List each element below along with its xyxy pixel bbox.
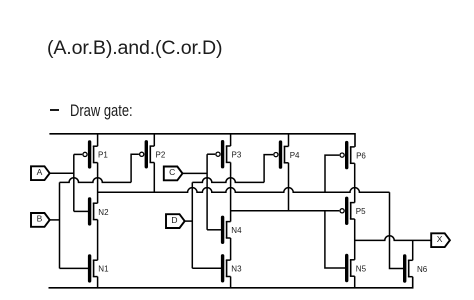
svg-text:P2: P2 <box>156 151 166 160</box>
svg-text:P5: P5 <box>356 207 366 216</box>
svg-text:P1: P1 <box>98 151 108 160</box>
svg-text:P3: P3 <box>232 151 242 160</box>
svg-text:N3: N3 <box>231 265 242 274</box>
svg-text:P6: P6 <box>356 151 366 160</box>
svg-text:N6: N6 <box>417 265 428 274</box>
svg-text:A: A <box>37 167 43 177</box>
svg-text:D: D <box>171 215 177 225</box>
svg-text:P4: P4 <box>290 151 300 160</box>
svg-text:B: B <box>37 214 43 224</box>
svg-text:N5: N5 <box>356 264 367 273</box>
svg-text:C: C <box>169 167 175 177</box>
svg-text:N2: N2 <box>98 208 109 217</box>
svg-text:N4: N4 <box>231 226 242 235</box>
svg-text:N1: N1 <box>98 265 109 274</box>
svg-text:X: X <box>437 234 443 244</box>
